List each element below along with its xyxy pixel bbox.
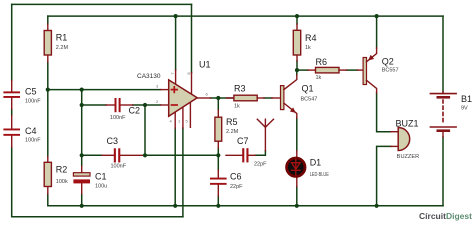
node C3/C7 junction (143, 153, 147, 157)
wire Q2 emitter top (376, 16, 378, 48)
resistor R3 (227, 84, 281, 110)
wire pin7 drop (175, 16, 177, 70)
node buzzer ground junction (375, 204, 379, 208)
svg-text:C6: C6 (230, 172, 242, 182)
wire C6 top lead (217, 155, 219, 170)
wire R3 left (264, 97, 272, 99)
CircuitDigest logo (419, 211, 472, 221)
svg-text:R2: R2 (56, 164, 68, 174)
wire second top rail (48, 15, 443, 17)
wire vertical C2C3 link (144, 105, 146, 155)
svg-text:B1: B1 (461, 94, 472, 104)
svg-text:R5: R5 (226, 117, 238, 127)
resistor R1 (44, 24, 68, 62)
node C2/pin2 junction (143, 103, 147, 107)
wire node C to R6 (297, 69, 308, 71)
svg-text:100nF: 100nF (25, 138, 41, 144)
wire R4 bottom lead (296, 61, 298, 70)
wire R5 bottom lead (217, 148, 219, 155)
svg-text:2.2M: 2.2M (56, 45, 69, 51)
capacitor C7 (226, 136, 267, 168)
svg-text:1k: 1k (316, 75, 322, 81)
svg-text:C1: C1 (95, 172, 107, 182)
svg-text:C4: C4 (25, 126, 37, 136)
svg-text:BUZZER: BUZZER (397, 154, 420, 160)
wire buzzer bottom to ground (377, 146, 391, 205)
svg-text:BC557: BC557 (382, 68, 399, 74)
svg-text:2.2M: 2.2M (226, 129, 239, 135)
transistor Q1 (281, 75, 318, 118)
svg-text:100nF: 100nF (110, 115, 126, 121)
svg-text:R6: R6 (316, 57, 328, 67)
wire R5 top lead (217, 98, 219, 110)
wire C6 bottom lead (217, 196, 219, 206)
wire Q1 collector link (296, 70, 298, 75)
node R4 rail junction (295, 14, 299, 18)
svg-text:1k: 1k (305, 45, 311, 51)
node Q2 rail junction (375, 14, 379, 18)
resistor R6 (308, 57, 363, 81)
node C1/C3 junction (80, 153, 84, 157)
svg-text:C3: C3 (107, 136, 119, 146)
svg-text:R1: R1 (56, 33, 68, 43)
node C1 ground junction (80, 204, 84, 208)
node pin7 rail junction (174, 14, 178, 18)
wire ground line (82, 205, 443, 207)
wire pin3 line (48, 89, 161, 91)
op-amp U1 (137, 60, 211, 129)
capacitor C5 (3, 81, 41, 109)
wire output to R3 (211, 97, 234, 99)
node R4/R6/Q1 junction (295, 68, 299, 72)
wire R4 top lead (296, 16, 298, 24)
svg-text:100nF: 100nF (111, 163, 127, 169)
node C6 ground junction (216, 204, 220, 208)
svg-text:C7: C7 (237, 136, 249, 146)
wire battery top (442, 16, 444, 92)
buzzer BUZ1 (391, 118, 419, 160)
wire top outer rail (12, 3, 192, 5)
svg-text:1k: 1k (234, 103, 240, 109)
wire R6 to Q2 base (347, 69, 358, 71)
wire C3 left lead green (82, 154, 102, 156)
svg-text:100k: 100k (56, 179, 68, 185)
node R1/R2/pin3 junction (46, 88, 50, 92)
svg-text:9V: 9V (461, 105, 468, 111)
capacitor C3 (102, 136, 145, 170)
svg-text:C5: C5 (25, 86, 37, 96)
svg-text:LED-BLUE: LED-BLUE (310, 172, 329, 178)
wire C1 bottom to ground line (81, 194, 83, 206)
node output junction (216, 96, 220, 100)
resistor R4 (293, 24, 316, 61)
capacitor C1 (73, 166, 107, 194)
svg-text:100u: 100u (95, 183, 107, 189)
wire vertical node B (81, 90, 83, 166)
node R5/C6/C7 junction (216, 153, 220, 157)
svg-text:BC547: BC547 (301, 96, 318, 102)
battery B1 (430, 92, 472, 137)
wire R1 bottom to node A (47, 62, 49, 90)
wire pin2 line right (133, 104, 161, 106)
svg-text:Q1: Q1 (302, 83, 314, 93)
svg-text:BUZ1: BUZ1 (396, 118, 419, 128)
svg-text:CírcuitDigest: CírcuitDigest (419, 211, 472, 221)
wire left rail mid (C5-C4 link) (11, 109, 13, 116)
transistor Q2 (363, 48, 398, 93)
svg-text:R4: R4 (305, 33, 317, 43)
node B pin2 tap (80, 103, 84, 107)
wire pin1 drop (182, 128, 184, 217)
LED D1 (287, 151, 330, 187)
wire pin2 line left (82, 104, 106, 106)
capacitor C2 (106, 98, 140, 121)
svg-text:22pF: 22pF (254, 161, 267, 167)
wire left rail lower (12, 147, 183, 217)
wire C7 to antenna (255, 151, 265, 156)
wire Q2 collector to buzzer (377, 93, 391, 132)
capacitor C4 (3, 115, 41, 147)
svg-text:D1: D1 (310, 157, 322, 167)
wire C3 right to R5 node (145, 154, 218, 156)
wire left rail upper (11, 4, 13, 80)
svg-text:U1: U1 (199, 60, 211, 70)
svg-text:C2: C2 (129, 106, 141, 116)
wire pin4 drop (174, 128, 176, 206)
wire Q1 emitter to D1 (296, 118, 298, 151)
svg-text:R3: R3 (234, 84, 246, 94)
resistor R5 (215, 110, 239, 148)
node pin4 ground junction (173, 204, 177, 208)
resistor R2 (44, 157, 68, 195)
svg-text:CA3130: CA3130 (137, 73, 161, 80)
wire pin8 drop (191, 4, 193, 72)
wire R1 top drop (47, 16, 49, 24)
svg-text:Q2: Q2 (382, 57, 394, 67)
wire battery bottom (442, 137, 444, 206)
wire node A to R2 (47, 90, 49, 157)
node B pin3 tap (80, 88, 84, 92)
svg-text:22pF: 22pF (230, 184, 243, 190)
antenna AE1 (257, 119, 273, 151)
capacitor C6 (210, 170, 243, 196)
wire D1 to ground (296, 187, 298, 206)
wire R2 bottom corner (48, 194, 82, 206)
node D1 ground junction (295, 204, 299, 208)
svg-text:100nF: 100nF (25, 98, 41, 104)
